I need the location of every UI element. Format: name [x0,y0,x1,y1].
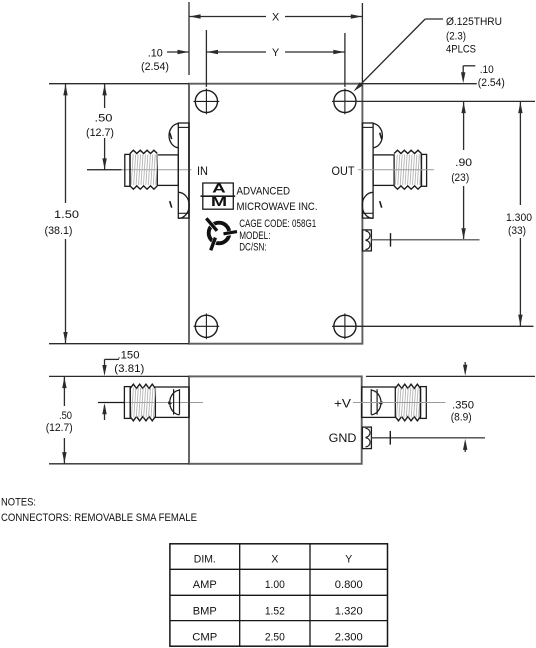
svg-text:IN: IN [197,164,208,178]
svg-text:+V: +V [334,399,351,411]
svg-text:(38.1): (38.1) [45,225,73,237]
svg-text:AMP: AMP [193,579,217,591]
svg-text:CAGE CODE: 058G1: CAGE CODE: 058G1 [239,218,316,230]
svg-text:ADVANCED: ADVANCED [237,186,291,198]
svg-text:1.52: 1.52 [265,605,285,617]
svg-text:(33): (33) [508,225,526,237]
svg-text:X: X [271,553,278,565]
svg-text:DC/SN:: DC/SN: [239,242,266,254]
svg-text:DIM.: DIM. [194,553,216,565]
svg-text:(12.7): (12.7) [86,127,114,139]
svg-text:.350: .350 [452,399,474,411]
svg-text:.10: .10 [148,47,163,59]
svg-text:CMP: CMP [192,631,217,643]
svg-text:(8.9): (8.9) [451,412,472,424]
svg-text:0.800: 0.800 [335,579,363,591]
svg-text:BMP: BMP [193,605,217,617]
svg-text:(2.3): (2.3) [446,31,466,43]
svg-text:X: X [272,12,279,24]
svg-text:M: M [211,194,227,209]
svg-text:1.00: 1.00 [265,579,285,591]
svg-text:Y: Y [345,553,352,565]
svg-text:(2.54): (2.54) [141,61,169,73]
svg-text:2.50: 2.50 [265,631,285,643]
svg-text:(3.81): (3.81) [114,363,144,375]
svg-text:1.320: 1.320 [335,605,363,617]
svg-text:4PLCS: 4PLCS [446,43,476,55]
svg-text:2.300: 2.300 [335,631,363,643]
svg-text:.50: .50 [95,113,113,125]
svg-text:(23): (23) [451,172,469,184]
svg-text:.150: .150 [118,349,140,361]
svg-text:Y: Y [272,47,279,59]
svg-text:NOTES:: NOTES: [1,497,36,509]
svg-text:1.300: 1.300 [506,212,532,224]
svg-text:MODEL:: MODEL: [239,230,270,242]
svg-text:OUT: OUT [332,164,356,178]
svg-text:MICROWAVE INC.: MICROWAVE INC. [237,201,318,213]
svg-text:(2.54): (2.54) [478,77,505,89]
svg-text:(12.7): (12.7) [46,422,73,434]
svg-text:.50: .50 [59,410,72,422]
svg-text:.10: .10 [480,64,494,76]
svg-text:Ø.125THRU: Ø.125THRU [446,16,502,28]
svg-text:.90: .90 [455,157,472,169]
svg-text:1.50: 1.50 [54,209,79,221]
svg-text:GND: GND [329,433,357,445]
svg-text:CONNECTORS: REMOVABLE SMA FEMA: CONNECTORS: REMOVABLE SMA FEMALE [1,512,197,524]
